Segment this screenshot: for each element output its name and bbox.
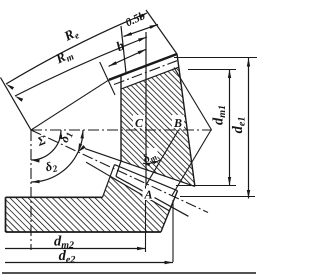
dimension Re — [6, 13, 147, 84]
pinion face cone line (thick top edge) — [109, 54, 177, 80]
extension line mean pitch down (d_m2) — [145, 186, 147, 252]
wheel left edge — [5, 197, 7, 232]
pinion upper root line — [121, 67, 179, 89]
pinion inner face (vertical) — [120, 75, 122, 161]
svg-text:A: A — [143, 187, 152, 201]
angle arc at mean section (theta) — [143, 160, 160, 163]
pinion tip line (lower) — [116, 176, 188, 216]
gear-1 axis horizontal centerline — [31, 129, 212, 131]
label A — [143, 187, 152, 201]
label delta_m (mean cone angle) — [140, 147, 159, 167]
svg-text:C: C — [135, 116, 144, 130]
label delta2 — [44, 158, 59, 177]
b extension ticks — [100, 62, 115, 95]
dimension d_m2 — [5, 248, 146, 250]
wheel tip line — [115, 165, 178, 191]
wheel root construction line — [86, 162, 110, 176]
label delta1 — [57, 129, 76, 145]
mid-face extension line (0.5b) — [121, 26, 126, 73]
label d_e2 — [59, 248, 76, 266]
wheel bottom face — [6, 231, 161, 233]
extension line top mean (d_m1) — [188, 69, 236, 71]
wheel top face — [6, 196, 103, 198]
label Rm — [52, 46, 75, 69]
angle delta1 arc — [78, 130, 83, 152]
pinion back face — [177, 54, 195, 186]
dimension d_m1 — [229, 70, 231, 186]
mean back cone generator B to M — [146, 130, 179, 185]
pinion lower root line — [85, 149, 195, 187]
dimension 0.5b — [124, 25, 159, 37]
dimension d_e2 — [5, 262, 173, 264]
label d_m2 — [54, 234, 74, 252]
extension line outer pitch down (d_e2) — [172, 200, 174, 262]
apex extension line for R dims — [1, 78, 32, 131]
label B — [173, 116, 182, 130]
common pitch generator O-A (dash-dot) — [31, 130, 208, 213]
label Sigma — [35, 133, 48, 149]
label b — [114, 38, 126, 55]
outer extension line from T2 — [146, 10, 177, 54]
upper pitch line (dash-dot) — [114, 61, 177, 85]
face construction line to apex O — [31, 80, 109, 130]
wheel inner tooth face — [103, 165, 115, 198]
dimension Rm — [15, 37, 147, 96]
extension line bottom mean (d_m1) — [176, 185, 236, 187]
label d_m1 — [211, 105, 229, 125]
angle delta2 arc — [31, 152, 78, 182]
label Re — [61, 24, 82, 46]
back cone upper generator — [174, 68, 211, 130]
dimension d_e1 — [248, 58, 250, 199]
wheel root line (hatch boundary) — [110, 176, 169, 211]
label d_e1 — [230, 117, 248, 134]
pinion gear-1 blank section (hatched) — [121, 67, 195, 186]
back cone lower generator — [172, 130, 211, 196]
dimension b — [109, 49, 146, 66]
angle Sigma arc between axes — [31, 130, 61, 160]
mean section line through C — [145, 32, 147, 186]
wheel back face — [161, 191, 178, 232]
svg-text:B: B — [173, 116, 182, 130]
label C — [135, 116, 144, 130]
bottom frame line — [2, 272, 256, 274]
pinion inner lower band face — [116, 161, 121, 176]
label 0.5b — [124, 10, 148, 29]
wheel gear-2 rim section (hatched) — [6, 176, 170, 232]
extension line top outer (d_e1) — [174, 57, 257, 59]
extension line bottom outer (d_e1) — [180, 196, 255, 198]
gear-2 axis vertical centerline — [30, 130, 32, 250]
